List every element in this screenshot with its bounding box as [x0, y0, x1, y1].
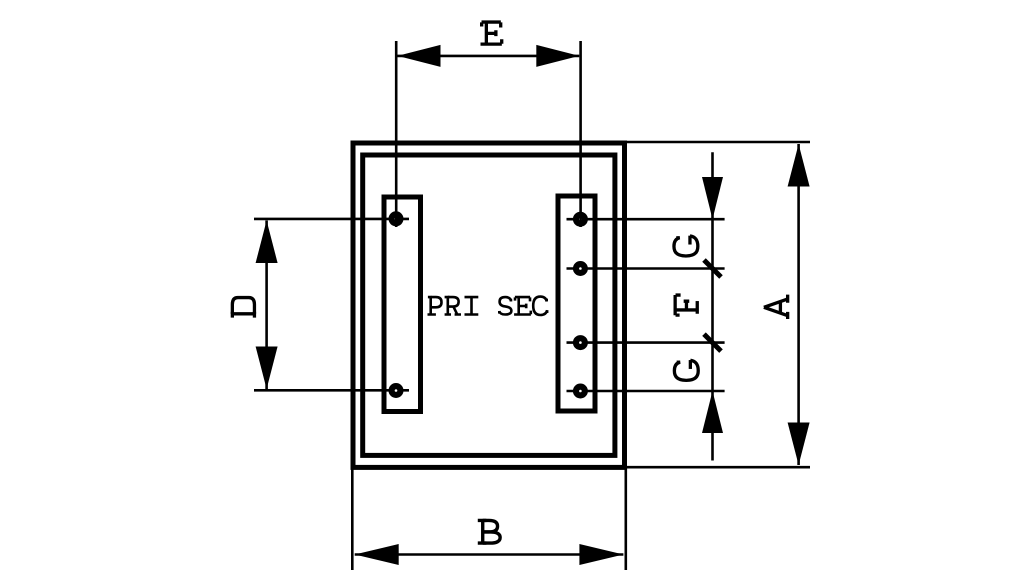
label PRI SEC — [428, 297, 548, 315]
secondary pin slot — [558, 196, 595, 411]
pin primary 2 — [389, 383, 404, 398]
label G upper — [674, 236, 698, 256]
dimension B extension line right — [624, 468, 627, 570]
wire pin line primary row 1 (D top extension) — [254, 218, 409, 221]
pin secondary 3 — [573, 335, 588, 350]
label E — [481, 22, 502, 44]
dimension tick at secondary row 2 — [704, 260, 721, 277]
dimension B arrowhead left — [355, 544, 399, 565]
wire pin line secondary row 3 — [567, 341, 725, 344]
dimension B extension line left — [351, 468, 354, 570]
dimension G arrowhead down — [702, 177, 723, 219]
dimension D arrowhead top — [256, 221, 278, 264]
dimension A arrowhead top — [788, 144, 810, 187]
dimension chain G F G line — [711, 152, 714, 460]
dimension A line — [797, 144, 800, 465]
dimension tick at secondary row 3 — [704, 334, 721, 351]
pin secondary 4 — [573, 384, 588, 399]
dimension A extension line top — [627, 141, 810, 144]
dimension B line — [355, 553, 624, 556]
dimension D line — [265, 221, 268, 390]
dimension E extension line right — [579, 41, 582, 227]
transformer body inner case — [363, 155, 615, 455]
label A — [764, 295, 789, 319]
label F — [675, 295, 697, 315]
dimension E arrowhead right — [536, 45, 579, 67]
wire pin line secondary row 4 — [567, 390, 725, 393]
pin secondary 2 — [573, 261, 588, 276]
pin primary 1 — [389, 211, 404, 226]
dimension A arrowhead bottom — [788, 423, 810, 466]
primary pin slot — [384, 197, 421, 412]
pin secondary 1 — [573, 212, 588, 227]
dimension E line — [398, 55, 580, 58]
label D — [232, 298, 254, 318]
wire pin line secondary row 2 — [567, 267, 725, 270]
dimension B arrowhead right — [579, 544, 623, 565]
dimension A extension line bottom — [627, 466, 810, 469]
dimension D arrowhead bottom — [256, 347, 278, 390]
dimension E arrowhead left — [398, 45, 441, 67]
label B — [478, 520, 500, 543]
dimension G arrowhead up — [702, 391, 723, 433]
dimension E extension line left — [395, 41, 398, 227]
label G lower — [674, 360, 698, 380]
wire pin line primary row 4 (D bottom extension) — [254, 389, 409, 392]
transformer body outer case — [353, 143, 625, 467]
wire pin line secondary row 1 — [567, 218, 725, 221]
